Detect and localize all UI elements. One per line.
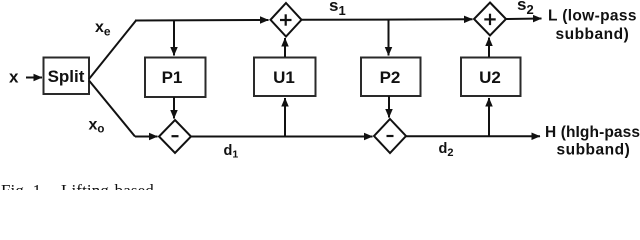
- block Split: [44, 58, 90, 95]
- wire even branch diagonal from Split: [89, 21, 136, 80]
- block P2: [361, 58, 421, 97]
- wire P2 down to subtractor 2: [388, 96, 390, 118]
- wire U2 up into adder 2: [488, 38, 490, 58]
- wire U1 up into adder 1: [284, 38, 286, 57]
- subtractor 1 diamond: [159, 120, 191, 153]
- svg-text:x: x: [9, 67, 19, 86]
- svg-text:H (hIgh-pass: H (hIgh-pass: [545, 124, 640, 141]
- wire s1 line from adder1 to adder2: [302, 18, 473, 21]
- svg-text:L (low-pass: L (low-pass: [548, 8, 637, 25]
- block U1: [254, 58, 316, 97]
- svg-text:xe: xe: [95, 19, 111, 39]
- svg-text:P2: P2: [380, 68, 401, 87]
- svg-text:subband): subband): [557, 142, 631, 159]
- wire P1 down to subtractor 1: [173, 97, 175, 119]
- subtractor 2 diamond: [374, 119, 406, 153]
- svg-text:subband): subband): [556, 26, 630, 43]
- wire top line into adder 1: [135, 19, 269, 22]
- wire odd branch arrow into subtractor 1: [135, 136, 158, 138]
- wire junction down to P1: [173, 20, 175, 56]
- svg-text:U2: U2: [479, 68, 501, 87]
- wire d2 line from subtractor2 to H output: [406, 135, 540, 137]
- svg-text:xo: xo: [89, 117, 105, 136]
- wire odd branch diagonal from Split: [89, 81, 135, 137]
- svg-text:d2: d2: [439, 141, 454, 159]
- svg-text:s2: s2: [517, 0, 534, 17]
- svg-text:s1: s1: [329, 0, 346, 18]
- wire x input arrow: [26, 77, 42, 79]
- block P1: [145, 58, 206, 98]
- svg-text:Fig. 1.Lifting-based: Fig. 1.Lifting-based: [1, 181, 154, 190]
- svg-text:P1: P1: [162, 68, 183, 87]
- adder 2 diamond: [474, 3, 506, 36]
- wire junction up into U2: [488, 98, 490, 136]
- adder 1 diamond: [271, 3, 302, 37]
- block U2: [461, 58, 521, 97]
- wire s2 arrow to L output: [506, 18, 542, 21]
- svg-text:d1: d1: [224, 143, 239, 161]
- svg-text:Split: Split: [48, 67, 85, 86]
- svg-text:U1: U1: [273, 68, 295, 87]
- wire junction up into U1: [284, 98, 286, 137]
- wire junction down to P2: [388, 20, 390, 56]
- wire d1 line from subtractor1 to subtractor2: [191, 136, 373, 138]
